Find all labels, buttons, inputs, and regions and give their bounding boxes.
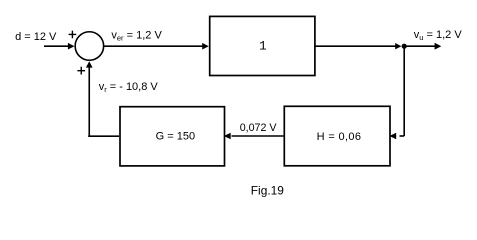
plus sign bottom input <box>77 67 85 75</box>
svg-text:0,072 V: 0,072 V <box>240 122 278 134</box>
block U1 gain 1 <box>210 16 315 75</box>
arrowhead into block 1 <box>202 43 209 50</box>
wire input to summer <box>44 45 69 47</box>
block G <box>120 107 225 166</box>
wire H to G <box>232 135 284 137</box>
wire G to corner <box>88 135 119 137</box>
svg-text:H = 0,06: H = 0,06 <box>317 131 362 143</box>
svg-text:d = 12 V: d = 12 V <box>15 31 57 43</box>
svg-text:1: 1 <box>259 40 267 54</box>
wire feedback vertical from node <box>403 46 405 136</box>
arrowhead into summer left <box>68 43 75 50</box>
wire feedback into H <box>400 135 405 137</box>
wire corner up to summer <box>88 64 90 137</box>
plus sign top input <box>69 31 77 39</box>
block H <box>284 106 390 166</box>
arrowhead into summer bottom <box>86 61 93 67</box>
node junction dot <box>402 44 407 49</box>
arrowhead into G right side <box>224 133 231 139</box>
svg-text:G = 150: G = 150 <box>156 131 195 143</box>
svg-text:Fig.19: Fig.19 <box>251 183 284 197</box>
arrowhead into H right side <box>389 133 396 140</box>
svg-text:vr = - 10,8 V: vr = - 10,8 V <box>99 81 159 94</box>
wire summer to block 1 <box>104 45 203 47</box>
output arrowhead <box>435 43 442 50</box>
wire block 1 to output node <box>315 45 396 47</box>
wire node to output arrow <box>404 45 435 47</box>
arrowhead at node <box>395 43 401 49</box>
summing junction S1 <box>75 32 104 61</box>
